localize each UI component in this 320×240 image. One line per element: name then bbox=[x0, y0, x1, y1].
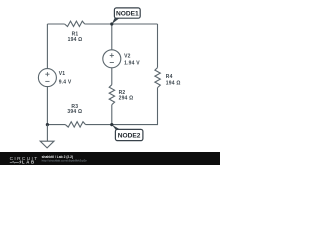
wire: NODE1 junction to top-right corner bbox=[112, 23, 158, 25]
svg-text:V2: V2 bbox=[124, 54, 131, 60]
wire: R2 bottom to NODE2 junction bbox=[111, 105, 113, 125]
V1 plus sign bbox=[45, 72, 49, 76]
junction dot NODE1 bbox=[110, 22, 113, 25]
svg-text:http://circuitlab.com/c6qsb8bk: http://circuitlab.com/c6qsb8bk3qt5z bbox=[42, 158, 88, 162]
V2 plus sign bbox=[110, 53, 114, 57]
wire: V1 bottom to bottom-left junction bbox=[46, 87, 48, 125]
node NODE1 label box bbox=[114, 8, 140, 18]
wire: R1 to NODE1 junction bbox=[85, 23, 112, 25]
resistor R1 zigzag bbox=[65, 21, 85, 26]
wire: R3 to NODE2 junction bbox=[86, 124, 112, 126]
svg-text:NODE2: NODE2 bbox=[118, 133, 141, 140]
svg-text:LAB: LAB bbox=[22, 160, 36, 165]
svg-text:1.94 V: 1.94 V bbox=[124, 61, 140, 67]
junction dot NODE2 bbox=[110, 123, 113, 126]
ground bbox=[40, 141, 54, 148]
wire: R4 bottom to bottom-right corner then left to NODE2 junction bbox=[112, 88, 158, 125]
footer logo bolt bbox=[19, 160, 21, 164]
voltage source V1 circle bbox=[38, 69, 56, 87]
wire: top from left corner to R1 bbox=[47, 23, 64, 25]
wire: left vertical top (corner to V1 top) bbox=[46, 24, 48, 69]
wire: V2 bottom to R2 top bbox=[111, 68, 113, 85]
node NODE2 label tail bbox=[112, 125, 121, 130]
resistor R4 zigzag bbox=[155, 68, 160, 88]
junction dot bottom-left bbox=[46, 123, 49, 126]
footer logo squiggle bbox=[10, 161, 19, 163]
svg-text:NODE1: NODE1 bbox=[116, 11, 139, 18]
wire: NODE1 junction down to V2 top bbox=[111, 24, 113, 50]
footer bar bbox=[0, 152, 220, 165]
wire: junction down to ground bbox=[46, 125, 48, 142]
resistor R3 zigzag bbox=[65, 122, 85, 127]
node NODE1 label tail bbox=[112, 18, 120, 24]
svg-text:9.4 V: 9.4 V bbox=[59, 80, 72, 86]
wire: bottom-left junction to R3 bbox=[47, 124, 65, 126]
svg-text:394 Ω: 394 Ω bbox=[67, 109, 82, 115]
svg-text:194 Ω: 194 Ω bbox=[166, 80, 181, 86]
voltage source V2 circle bbox=[103, 50, 121, 68]
svg-text:R4: R4 bbox=[166, 74, 173, 80]
V2 minus sign bbox=[110, 62, 114, 64]
svg-text:294 Ω: 294 Ω bbox=[119, 96, 134, 102]
svg-text:V1: V1 bbox=[59, 71, 66, 77]
wire: right vertical top (corner to R4) bbox=[157, 24, 159, 68]
node NODE2 label box bbox=[115, 129, 142, 140]
V1 minus sign bbox=[45, 80, 49, 82]
resistor R2 zigzag bbox=[109, 85, 114, 105]
svg-text:194 Ω: 194 Ω bbox=[68, 37, 83, 43]
